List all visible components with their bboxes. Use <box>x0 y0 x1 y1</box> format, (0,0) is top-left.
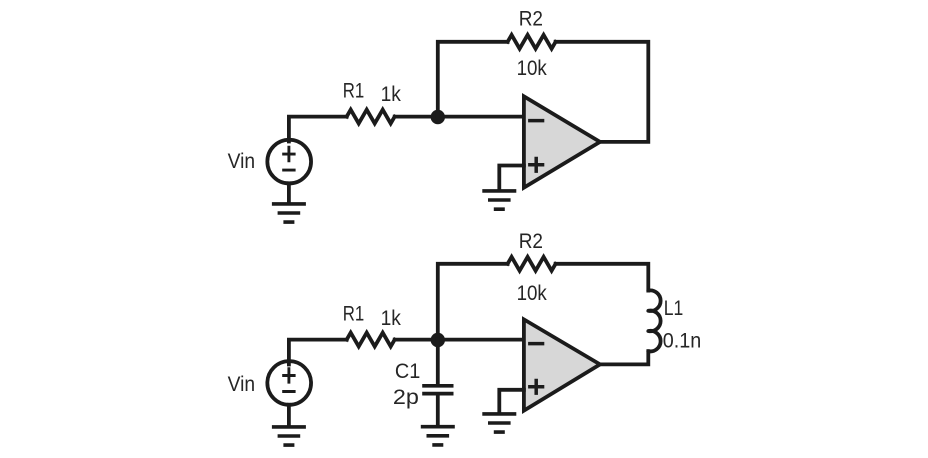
op-amp minus symbol (top) <box>528 119 544 123</box>
wire Vin top lead to R1 (top) <box>289 117 347 142</box>
ground (bottom op-amp) <box>482 414 516 432</box>
svg-text:L1: L1 <box>664 297 684 320</box>
svg-text:2p: 2p <box>393 386 419 409</box>
wire Vin to ground (bottom) <box>287 405 291 426</box>
resistor R1 (bottom) <box>347 333 395 347</box>
wire R1 to op-amp inverting input (bottom) <box>395 338 524 342</box>
svg-text:R2: R2 <box>519 230 543 253</box>
wire R2 to inductor (bottom) <box>556 264 649 291</box>
op-amp U2 (bottom) <box>524 319 600 410</box>
ground (top op-amp) <box>482 191 516 209</box>
plus-minus inside Vin (bottom) <box>282 367 295 391</box>
svg-text:R1: R1 <box>343 80 365 103</box>
voltage source Vin (bottom) <box>267 361 311 405</box>
svg-text:0.1n: 0.1n <box>663 329 702 352</box>
op-amp minus symbol (bottom) <box>528 342 544 346</box>
wire inductor to op-amp output (bottom) <box>600 351 648 364</box>
wire node up to feedback (bottom) <box>438 264 508 340</box>
svg-text:1k: 1k <box>381 83 402 106</box>
svg-text:R1: R1 <box>343 303 365 326</box>
wire Vin top lead to R1 (bottom) <box>289 340 347 365</box>
voltage source Vin (top) <box>267 140 311 184</box>
svg-text:Vin: Vin <box>228 373 256 396</box>
wire C1 to ground <box>436 396 440 426</box>
svg-text:R2: R2 <box>519 8 543 31</box>
wire node up to feedback (top) <box>438 42 508 117</box>
op-amp plus symbol (top) <box>528 157 544 173</box>
plus-minus inside Vin (top) <box>282 146 295 170</box>
wire R1 to op-amp inverting input (top) <box>395 115 524 119</box>
resistor R2 (top) <box>508 35 556 49</box>
svg-text:10k: 10k <box>517 57 548 80</box>
ground (C1) <box>421 427 455 445</box>
wire plus input to ground (bottom) <box>499 390 524 413</box>
inductor L1 <box>648 290 660 351</box>
capacitor C1 <box>422 386 453 394</box>
resistor R1 (top) <box>347 110 395 124</box>
svg-text:Vin: Vin <box>228 150 256 173</box>
svg-text:1k: 1k <box>381 307 402 330</box>
wire node down to C1 <box>436 340 440 384</box>
svg-text:C1: C1 <box>395 360 420 383</box>
resistor R2 (bottom) <box>508 257 556 271</box>
svg-text:10k: 10k <box>517 282 548 305</box>
wire R2 to op-amp output (top) <box>556 42 649 142</box>
wire plus input to ground (top) <box>499 166 524 190</box>
op-amp U1 (top) <box>524 96 600 187</box>
ground (top Vin) <box>272 204 306 222</box>
node junction dot (bottom) <box>431 333 445 347</box>
node junction dot (top) <box>431 110 445 124</box>
ground (bottom Vin) <box>272 427 306 445</box>
op-amp plus symbol (bottom) <box>528 379 544 395</box>
wire Vin to ground (top) <box>287 183 291 202</box>
